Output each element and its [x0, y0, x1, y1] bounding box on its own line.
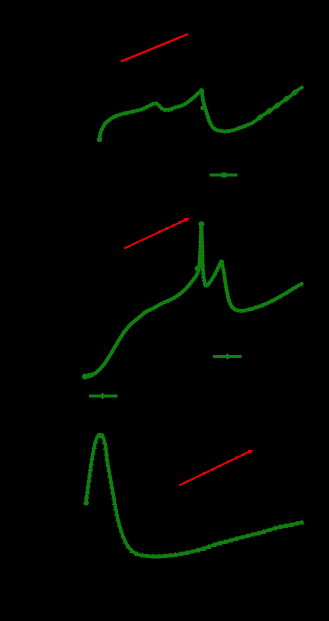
bottom panel: green data curve with markers — [83, 433, 305, 559]
middle panel: legend sample line with diamond marker — [213, 353, 242, 360]
top panel: green data curve with markers — [97, 87, 302, 142]
middle panel: second legend sample line with diamond marker — [89, 393, 118, 400]
middle panel: red annotation arrow — [124, 218, 190, 249]
middle panel: green data curve with markers — [82, 221, 304, 379]
top panel: red fit line — [121, 34, 188, 62]
bottom panel: red annotation arrow — [179, 450, 253, 486]
top panel: legend sample line with square marker — [210, 172, 238, 177]
